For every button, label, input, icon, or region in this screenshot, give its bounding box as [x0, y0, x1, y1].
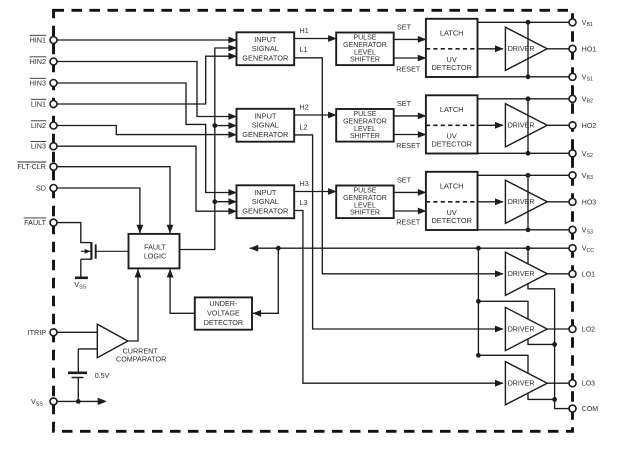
svg-text:COM: COM — [582, 406, 599, 413]
svg-text:LATCH: LATCH — [440, 105, 464, 114]
svg-text:UNDER-: UNDER- — [209, 299, 238, 308]
svg-text:H2: H2 — [300, 102, 309, 111]
svg-text:HO2: HO2 — [582, 123, 597, 130]
svg-text:HIN1: HIN1 — [30, 36, 46, 45]
svg-text:DRIVER: DRIVER — [508, 270, 535, 278]
svg-text:SIGNAL: SIGNAL — [252, 197, 279, 206]
svg-text:GENERATOR: GENERATOR — [242, 54, 288, 63]
svg-text:DETECTOR: DETECTOR — [431, 63, 472, 72]
svg-text:PULSE: PULSE — [353, 111, 376, 118]
svg-text:GENERATOR: GENERATOR — [242, 130, 288, 139]
svg-text:HO3: HO3 — [582, 199, 597, 206]
svg-text:LIN3: LIN3 — [31, 142, 46, 151]
svg-text:DRIVER: DRIVER — [508, 45, 535, 53]
svg-text:LO3: LO3 — [582, 381, 595, 388]
svg-text:PULSE: PULSE — [353, 188, 376, 195]
svg-text:L1: L1 — [300, 45, 308, 54]
svg-text:COMPARATOR: COMPARATOR — [116, 355, 166, 364]
svg-text:SIGNAL: SIGNAL — [252, 44, 279, 53]
svg-text:FAULT: FAULT — [144, 242, 166, 251]
svg-text:L2: L2 — [300, 122, 308, 131]
svg-text:DRIVER: DRIVER — [508, 325, 535, 333]
svg-text:H1: H1 — [300, 26, 309, 35]
svg-text:VOLTAGE: VOLTAGE — [207, 309, 240, 318]
svg-text:GENERATOR: GENERATOR — [343, 42, 387, 49]
svg-text:HIN3: HIN3 — [30, 79, 46, 88]
svg-text:GENERATOR: GENERATOR — [343, 119, 387, 126]
svg-text:SET: SET — [397, 176, 412, 185]
svg-text:LIN1: LIN1 — [31, 100, 46, 109]
svg-text:LOGIC: LOGIC — [144, 252, 166, 261]
svg-text:L3: L3 — [300, 198, 308, 207]
svg-text:0.5V: 0.5V — [95, 371, 110, 380]
svg-text:FAULT: FAULT — [24, 218, 46, 227]
svg-text:LEVEL: LEVEL — [354, 49, 376, 56]
svg-text:DRIVER: DRIVER — [508, 122, 535, 130]
svg-text:GENERATOR: GENERATOR — [343, 195, 387, 202]
svg-text:LATCH: LATCH — [440, 28, 464, 37]
svg-text:SIGNAL: SIGNAL — [252, 121, 279, 130]
svg-text:SET: SET — [397, 23, 412, 32]
svg-text:SHIFTER: SHIFTER — [350, 133, 380, 140]
svg-text:RESET: RESET — [396, 141, 421, 150]
svg-text:DETECTOR: DETECTOR — [431, 216, 472, 225]
svg-text:SD: SD — [36, 184, 46, 193]
svg-text:DETECTOR: DETECTOR — [204, 318, 243, 327]
svg-text:DRIVER: DRIVER — [508, 198, 535, 206]
svg-text:INPUT: INPUT — [254, 188, 277, 197]
svg-text:INPUT: INPUT — [254, 111, 277, 120]
svg-text:LEVEL: LEVEL — [354, 202, 376, 209]
svg-text:LO1: LO1 — [582, 271, 595, 278]
svg-text:RESET: RESET — [396, 65, 421, 74]
svg-text:LO2: LO2 — [582, 327, 595, 334]
svg-text:LIN2: LIN2 — [31, 121, 46, 130]
svg-text:INPUT: INPUT — [254, 35, 277, 44]
svg-text:LEVEL: LEVEL — [354, 126, 376, 133]
svg-text:SET: SET — [397, 99, 412, 108]
svg-text:PULSE: PULSE — [353, 35, 376, 42]
svg-text:DRIVER: DRIVER — [508, 380, 535, 388]
svg-text:SHIFTER: SHIFTER — [350, 210, 380, 217]
svg-text:ITRIP: ITRIP — [28, 328, 47, 337]
svg-text:GENERATOR: GENERATOR — [242, 207, 288, 216]
svg-text:FLT-CLR: FLT-CLR — [17, 162, 46, 171]
svg-text:SHIFTER: SHIFTER — [350, 57, 380, 64]
svg-text:RESET: RESET — [396, 218, 421, 227]
svg-text:DETECTOR: DETECTOR — [431, 140, 472, 149]
svg-text:H3: H3 — [300, 179, 309, 188]
svg-text:LATCH: LATCH — [440, 181, 464, 190]
svg-text:HO1: HO1 — [582, 46, 597, 53]
svg-text:HIN2: HIN2 — [30, 57, 46, 66]
